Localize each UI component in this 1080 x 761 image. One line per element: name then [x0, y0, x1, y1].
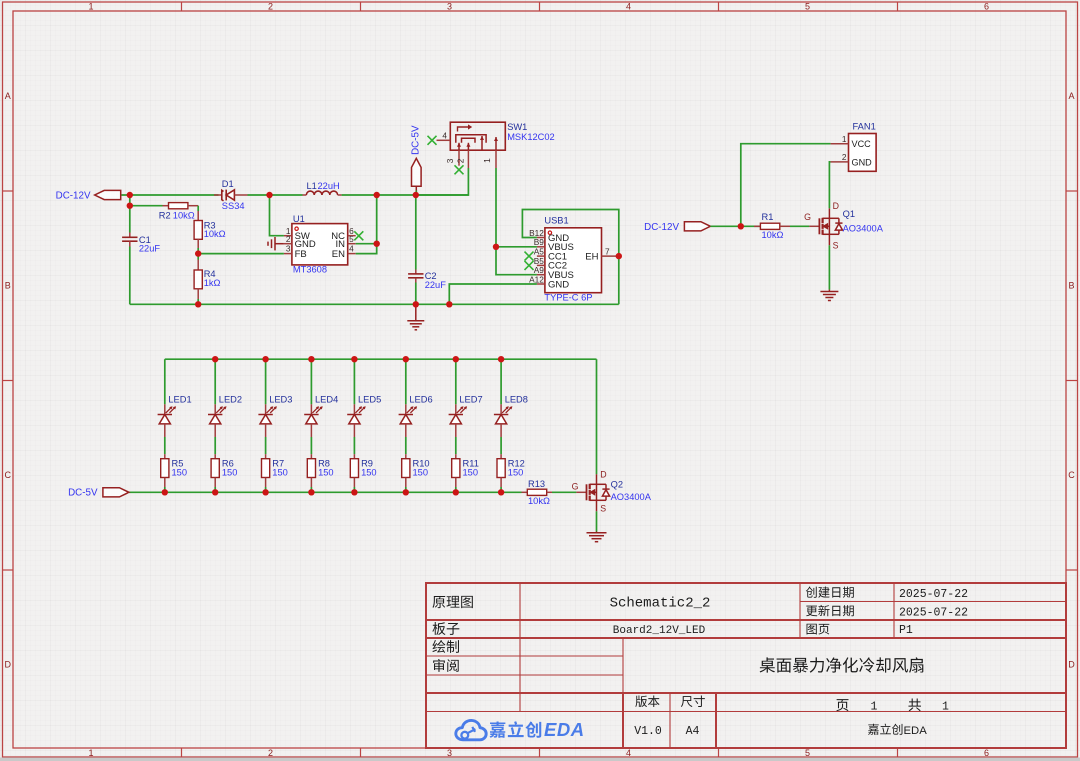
wire Q1 source to ground: [828, 245, 830, 289]
pin 3 of SW1: [445, 150, 459, 166]
label SS34: [222, 201, 245, 211]
svg-text:SS34: SS34: [222, 201, 245, 211]
node top rail LED5: [351, 356, 357, 362]
LED1: [158, 404, 177, 437]
svg-text:D: D: [600, 469, 606, 479]
svg-text:R1: R1: [762, 212, 774, 222]
logo JLC EDA: [456, 719, 585, 740]
label Q2 D: [600, 469, 606, 479]
svg-text:150: 150: [508, 467, 524, 477]
node top rail LED2: [212, 356, 218, 362]
wire LED5 anode: [353, 359, 355, 404]
wire LED8 anode: [500, 359, 502, 404]
net label DC-5V vertical: [411, 125, 422, 155]
svg-text:2025-07-22: 2025-07-22: [899, 588, 968, 601]
title label 更新日期: [806, 605, 854, 616]
LED3: [258, 404, 277, 437]
wire LED bottom rail: [129, 491, 522, 493]
wire B12 GND loop: [522, 210, 618, 305]
transistor Q2: [587, 474, 610, 511]
title value P1: [899, 624, 913, 637]
wire LED3 to R7: [265, 437, 267, 454]
label R13 10k: [528, 496, 550, 506]
svg-text:EH: EH: [585, 251, 598, 262]
wire ground rail: [130, 299, 619, 304]
svg-text:DC-12V: DC-12V: [644, 222, 679, 233]
resistor R1: [754, 223, 790, 229]
wire D1 to L1: [248, 194, 303, 196]
diode D1: [214, 190, 248, 201]
node bottom rail LED8: [498, 489, 504, 495]
wire R5 to rail: [164, 487, 166, 492]
svg-text:EDA: EDA: [544, 719, 585, 740]
wire A12 GND: [449, 284, 537, 304]
label Q1: [843, 209, 855, 219]
label Q2 S: [600, 503, 606, 513]
wire LED6 anode: [405, 359, 407, 404]
wire LED8 to R12: [500, 437, 502, 454]
wire R9 to rail: [353, 487, 355, 492]
power flag DC-12V: [95, 190, 121, 199]
label C2 22uF: [425, 271, 447, 290]
ground at Q2: [587, 532, 607, 542]
svg-text:6: 6: [984, 2, 989, 12]
svg-text:4: 4: [626, 2, 631, 12]
svg-text:LED2: LED2: [219, 394, 242, 404]
svg-text:22uF: 22uF: [425, 280, 447, 290]
svg-text:2: 2: [268, 2, 273, 12]
wire FAN VCC: [741, 144, 831, 227]
svg-text:AO3400A: AO3400A: [843, 223, 884, 233]
wire LED2 anode: [214, 359, 216, 404]
wire LED2 to R6: [214, 437, 216, 454]
wire IN EN tap: [356, 195, 377, 254]
svg-text:150: 150: [172, 467, 188, 477]
wire top rail to Q2 drain: [596, 359, 598, 474]
svg-text:6: 6: [984, 748, 989, 758]
wire LED top rail: [165, 358, 597, 360]
transistor Q1: [819, 208, 842, 245]
svg-text:R13: R13: [528, 479, 545, 489]
title label 板子: [432, 622, 459, 635]
node top rail LED4: [308, 356, 314, 362]
connector USB1 box: [529, 228, 619, 293]
svg-text:D1: D1: [222, 179, 234, 189]
svg-text:4: 4: [442, 130, 447, 140]
label MT3608: [293, 264, 327, 274]
svg-text:AO3400A: AO3400A: [611, 492, 652, 502]
label C1 22uF: [139, 235, 161, 253]
wire Q2 source to ground: [596, 511, 598, 531]
wire SW tap to U1 pin1: [270, 195, 284, 236]
svg-text:LED7: LED7: [459, 394, 482, 404]
svg-text:2: 2: [842, 152, 847, 162]
wire flag to R1: [710, 225, 760, 227]
svg-text:SW1: SW1: [507, 122, 527, 132]
svg-text:C: C: [4, 470, 11, 480]
svg-text:LED4: LED4: [315, 394, 338, 404]
svg-text:1: 1: [88, 2, 93, 12]
label R11 150: [463, 458, 479, 477]
label Q2 G: [572, 481, 579, 491]
label LED4: [315, 394, 338, 404]
label Q1 D: [833, 201, 839, 211]
title label 创建日期: [806, 586, 854, 597]
svg-text:R2: R2: [159, 210, 171, 220]
svg-text:1: 1: [88, 748, 93, 758]
svg-text:150: 150: [463, 467, 479, 477]
node bottom rail LED2: [212, 489, 218, 495]
wire DC-12V to D1: [122, 194, 219, 196]
wire LED7 to R11: [455, 437, 457, 454]
wire LED1 anode: [164, 359, 166, 404]
title value Board2_12V_LED: [613, 625, 706, 637]
svg-text:USB1: USB1: [544, 215, 568, 225]
svg-text:150: 150: [222, 467, 238, 477]
title value Schematic2_2: [610, 596, 711, 612]
svg-text:S: S: [833, 240, 839, 250]
title label 审阅: [433, 659, 459, 672]
label LED1: [168, 394, 191, 404]
ground at C2: [407, 304, 424, 330]
ground at U1 GND: [268, 237, 284, 250]
svg-text:MSK12C02: MSK12C02: [507, 132, 555, 142]
resistor R3: [194, 211, 202, 248]
wire R10 to rail: [405, 487, 407, 492]
svg-text:5: 5: [805, 2, 810, 12]
svg-text:G: G: [572, 481, 579, 491]
node bottom rail LED5: [351, 489, 357, 495]
wire R3 to R4: [197, 248, 199, 260]
node FB junction: [195, 250, 201, 256]
switch SW1 body: [450, 122, 505, 150]
pin 1 of SW1: [482, 150, 496, 168]
label Q2: [611, 479, 623, 489]
resistor R8: [307, 454, 315, 487]
wire R12 to rail: [500, 487, 502, 492]
svg-text:1: 1: [842, 134, 847, 144]
svg-text:LED6: LED6: [409, 394, 432, 404]
node bottom rail LED3: [262, 489, 268, 495]
node top rail LED8: [498, 356, 504, 362]
svg-text:B: B: [1068, 281, 1074, 291]
title label 原理图: [432, 596, 472, 608]
sheet title 桌面暴力净化冷却风扇: [760, 657, 924, 672]
wire LED4 to R8: [310, 437, 312, 454]
label D1: [222, 179, 234, 189]
wire LED5 to R9: [353, 437, 355, 454]
svg-text:GND: GND: [852, 157, 873, 167]
power flag DC-5V: [412, 158, 422, 195]
wire FB to U1: [198, 253, 284, 255]
title label 绘制: [432, 640, 459, 653]
svg-text:D: D: [1068, 660, 1075, 670]
node bottom rail LED7: [453, 489, 459, 495]
svg-text:10kΩ: 10kΩ: [762, 230, 784, 240]
svg-text:10kΩ: 10kΩ: [204, 229, 226, 239]
label R1 10k: [762, 230, 784, 240]
op-amp U1 MT3608 box: [284, 224, 356, 265]
svg-text:150: 150: [272, 467, 288, 477]
canvas bottom scrollbar: [0, 758, 1080, 761]
wire R11 to rail: [455, 487, 457, 492]
wire R8 to rail: [310, 487, 312, 492]
resistor R4: [194, 260, 202, 300]
label R4 1k: [204, 269, 221, 288]
title value updated date: [899, 606, 968, 619]
wire LED1 to R5: [164, 437, 166, 454]
svg-text:1: 1: [942, 701, 949, 714]
no-connect X on U1 NC: [354, 231, 363, 240]
svg-text:A4: A4: [686, 725, 700, 738]
node L1 out junction: [374, 192, 380, 198]
label R10 150: [413, 458, 430, 477]
label R7 150: [272, 458, 288, 477]
ground at Q1: [820, 290, 838, 301]
label AO3400A Q2: [611, 492, 652, 502]
node R4 ground: [195, 301, 201, 307]
resistor R13: [522, 489, 553, 495]
svg-text:FB: FB: [295, 249, 307, 260]
title label 尺寸: [681, 696, 705, 708]
svg-text:A: A: [1068, 91, 1074, 101]
wire R13 to Q2 gate: [552, 491, 586, 493]
svg-text:GND: GND: [548, 279, 569, 290]
svg-text:G: G: [804, 212, 811, 222]
label FAN1: [853, 121, 876, 131]
resistor R9: [350, 454, 358, 487]
svg-text:L1: L1: [307, 181, 317, 191]
svg-text:P1: P1: [899, 624, 913, 637]
svg-text:7: 7: [605, 246, 610, 256]
svg-text:EN: EN: [332, 249, 345, 260]
net label DC-12V right: [644, 222, 679, 233]
svg-text:TYPE-C 6P: TYPE-C 6P: [544, 293, 592, 303]
node R2 branch: [127, 203, 133, 209]
wire Q1 drain to FAN GND: [829, 162, 830, 208]
title vendor 嘉立创EDA: [868, 724, 927, 737]
svg-text:FAN1: FAN1: [853, 121, 876, 131]
node bottom rail LED1: [162, 489, 168, 495]
wire LED3 anode: [265, 359, 267, 404]
title label 图页: [807, 624, 830, 635]
resistor R7: [262, 454, 270, 487]
capacitor C1: [122, 206, 137, 305]
node EH junction: [616, 253, 622, 259]
label USB1: [544, 215, 568, 225]
capacitor C2: [408, 195, 423, 304]
svg-text:150: 150: [413, 467, 429, 477]
svg-text:B: B: [5, 281, 11, 291]
node C2 ground junction: [413, 301, 419, 307]
svg-text:V1.0: V1.0: [634, 725, 662, 738]
resistor R12: [497, 454, 505, 487]
label MSK12C02: [507, 132, 555, 142]
no-connect X on SW1 pin4: [428, 136, 437, 145]
label R2 10k: [159, 210, 195, 220]
wire R1 to Q1 gate: [790, 225, 819, 227]
svg-text:LED3: LED3: [269, 394, 292, 404]
label AO3400A: [843, 223, 884, 233]
svg-text:2: 2: [268, 748, 273, 758]
power flag DC-5V bottom: [103, 488, 129, 497]
label R13: [528, 479, 545, 489]
svg-text:Schematic2_2: Schematic2_2: [610, 596, 711, 612]
node top rail LED3: [262, 356, 268, 362]
wire L1 to SW1: [342, 194, 469, 196]
no-connect X on CC1: [525, 252, 534, 261]
svg-text:DC-5V: DC-5V: [68, 488, 98, 499]
node C2 top junction: [413, 192, 419, 198]
svg-text:2: 2: [286, 234, 291, 244]
LED7: [449, 404, 468, 437]
svg-text:DC-12V: DC-12V: [56, 191, 91, 202]
svg-text:22uF: 22uF: [139, 244, 161, 254]
resistor R2: [163, 203, 199, 209]
resistor R10: [402, 454, 410, 487]
label R12 150: [508, 458, 525, 477]
node bottom rail LED6: [403, 489, 409, 495]
resistor R11: [452, 454, 460, 487]
svg-text:3: 3: [447, 748, 452, 758]
svg-text:LED1: LED1: [168, 394, 191, 404]
LED2: [208, 404, 227, 437]
svg-text:S: S: [600, 503, 606, 513]
inductor L1: [303, 191, 342, 195]
svg-text:150: 150: [361, 467, 377, 477]
title block grid: [426, 583, 1066, 748]
resistor R5: [161, 454, 169, 487]
node SW junction: [266, 192, 272, 198]
svg-text:EDA: EDA: [904, 725, 928, 737]
no-connect X on SW1 pin3: [455, 165, 464, 174]
LED5: [347, 404, 366, 437]
title label 页共: [836, 699, 949, 714]
svg-text:D: D: [4, 660, 11, 670]
label R6 150: [222, 458, 238, 477]
svg-text:Q1: Q1: [843, 209, 855, 219]
net label DC-12V: [56, 191, 91, 202]
wire LED7 anode: [455, 359, 457, 404]
power flag DC-12V right: [684, 222, 710, 231]
svg-text:U1: U1: [293, 214, 305, 224]
label LED5: [358, 394, 381, 404]
label U1: [293, 214, 305, 224]
node VBUS junction: [493, 244, 499, 250]
label LED8: [505, 394, 528, 404]
pin 4 of SW1: [437, 130, 451, 140]
node IN junction: [374, 241, 380, 247]
wire LED6 to R10: [405, 437, 407, 454]
node top rail LED7: [453, 356, 459, 362]
node DC-12V junction: [127, 192, 133, 198]
svg-text:10kΩ: 10kΩ: [173, 210, 195, 220]
svg-text:MT3608: MT3608: [293, 264, 327, 274]
svg-text:Board2_12V_LED: Board2_12V_LED: [613, 625, 706, 637]
svg-text:1: 1: [482, 158, 492, 163]
svg-text:3: 3: [286, 244, 291, 254]
label LED3: [269, 394, 292, 404]
svg-text:LED8: LED8: [505, 394, 528, 404]
svg-text:4: 4: [349, 244, 354, 254]
svg-text:3: 3: [447, 2, 452, 12]
wire SW1 pin2 to DC-5V net: [416, 168, 468, 195]
label LED6: [409, 394, 432, 404]
wire VBUS tie: [496, 247, 537, 275]
connector FAN1 box: [831, 134, 877, 172]
label Q1 S: [833, 240, 839, 250]
svg-text:A: A: [5, 91, 11, 101]
label R5 150: [172, 458, 188, 477]
LED4: [304, 404, 323, 437]
label R8 150: [318, 458, 334, 477]
title value created date: [899, 588, 968, 601]
svg-text:5: 5: [349, 234, 354, 244]
pin 2 of SW1: [455, 150, 468, 168]
svg-text:3: 3: [445, 158, 455, 163]
svg-text:Q2: Q2: [611, 479, 623, 489]
LED6: [399, 404, 418, 437]
label LED7: [459, 394, 482, 404]
svg-text:1kΩ: 1kΩ: [204, 278, 221, 288]
wire R2 to R3: [197, 206, 199, 211]
label TYPE-C 6P: [544, 293, 592, 303]
svg-text:10kΩ: 10kΩ: [528, 496, 550, 506]
node top rail LED6: [403, 356, 409, 362]
label R3 10k: [204, 220, 226, 239]
label R9 150: [361, 458, 377, 477]
title label 版本: [635, 695, 659, 707]
label SW1: [507, 122, 527, 132]
svg-text:150: 150: [318, 467, 334, 477]
svg-text:C: C: [1068, 470, 1075, 480]
label LED2: [219, 394, 242, 404]
wire SW1 pin1 to VBUS: [495, 168, 497, 247]
label R1: [762, 212, 774, 222]
svg-text:1: 1: [871, 701, 878, 714]
label Q1 G: [804, 212, 811, 222]
label L1 22uH: [307, 181, 340, 191]
wire R7 to rail: [265, 487, 267, 492]
title value V1.0: [634, 725, 662, 738]
svg-text:2025-07-22: 2025-07-22: [899, 606, 968, 619]
net label DC-5V bottom: [68, 488, 98, 499]
svg-text:A12: A12: [529, 274, 544, 284]
title value A4: [686, 725, 700, 738]
svg-text:VCC: VCC: [852, 139, 872, 149]
node A12 ground junction: [446, 301, 452, 307]
resistor R6: [211, 454, 219, 487]
svg-text:LED5: LED5: [358, 394, 381, 404]
no-connect X on CC2: [525, 261, 534, 270]
wire R6 to rail: [214, 487, 216, 492]
svg-text:2: 2: [455, 158, 465, 163]
svg-text:22uH: 22uH: [318, 181, 340, 191]
wire LED4 anode: [310, 359, 312, 404]
svg-text:DC-5V: DC-5V: [411, 125, 422, 155]
wire to R2: [130, 195, 163, 206]
LED8: [494, 404, 513, 437]
node bottom rail LED4: [308, 489, 314, 495]
svg-text:D: D: [833, 201, 839, 211]
svg-text:4: 4: [626, 748, 631, 758]
svg-text:5: 5: [805, 748, 810, 758]
node R1 junction: [738, 223, 744, 229]
